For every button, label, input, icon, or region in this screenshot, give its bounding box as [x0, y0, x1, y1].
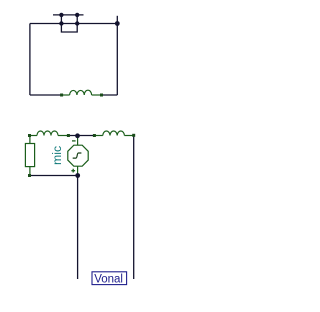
node: K1 upper-left dot — [59, 13, 63, 17]
svg-text:Vonal: Vonal — [94, 273, 123, 285]
node: junction dot at source top — [75, 133, 80, 138]
node: K1 lower-right dot — [75, 21, 79, 25]
terminal: L2a right — [67, 134, 70, 137]
wire: right side of loop — [116, 24, 118, 96]
minus sign of U1 — [72, 140, 76, 142]
terminal: R1 top / L2a left junction — [28, 134, 31, 137]
plus sign of U1 — [71, 169, 75, 173]
wire: bottom lead of U1 — [77, 166, 79, 175]
terminal: L1 right — [100, 94, 103, 97]
terminal: L1 left — [60, 94, 63, 97]
connector K1: top parallel bar — [53, 14, 84, 16]
wire: left riser of K1 — [60, 15, 62, 24]
terminal: L2b right / corner — [132, 134, 135, 137]
wire: navy segment between L2a and L2b — [68, 135, 94, 137]
wire: right long vertical to line — [133, 136, 135, 280]
node: K1 upper-right dot — [75, 13, 79, 17]
label: Vonal box — [92, 272, 127, 285]
node: junction dot at source bottom — [75, 173, 80, 178]
wire: open stub above right junction — [116, 16, 118, 24]
wire: left long vertical to line — [77, 176, 79, 280]
wire: top side of loop — [30, 23, 117, 25]
wire: U-shaped bypass under main wire — [61, 24, 77, 33]
svg-text:mic: mic — [50, 146, 64, 165]
waveform curve inside U1 — [73, 153, 82, 158]
terminal: L2b left — [93, 134, 96, 137]
resistor R1 (left vertical) — [25, 136, 34, 176]
wire: top lead of U1 — [77, 136, 79, 146]
node: junction dot top-right — [115, 21, 120, 26]
terminal: R1 bottom — [28, 174, 31, 177]
wire: bottom side of loop — [30, 94, 117, 96]
inductor L2b — [94, 131, 133, 136]
inductor L2a — [30, 131, 69, 136]
wire: left side of loop — [29, 24, 31, 96]
node: K1 lower-left dot — [59, 21, 63, 25]
inductor L1 (bottom of loop) — [62, 90, 102, 95]
wire: right riser of K1 — [76, 15, 78, 24]
octagon body of U1 — [68, 145, 88, 166]
wire: bottom navy wire resistor to source — [30, 175, 78, 177]
